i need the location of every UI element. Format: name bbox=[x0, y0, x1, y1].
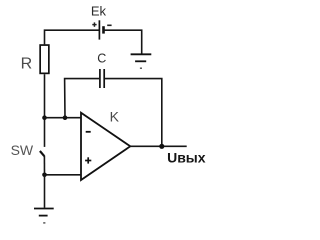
wire junction down to bottom ground bbox=[44, 175, 46, 208]
op-amp K bbox=[81, 113, 130, 180]
node non-inverting junction bbox=[42, 173, 47, 178]
node output junction bbox=[159, 144, 164, 149]
battery minus polarity mark bbox=[107, 24, 111, 26]
ground top-right bbox=[131, 54, 152, 68]
svg-text:C: C bbox=[97, 51, 106, 65]
wire capacitor right to feedback corner down to output node bbox=[105, 79, 162, 147]
wire battery negative to top-right corner down to ground bbox=[104, 30, 142, 54]
wire switch bottom contact to non-inverting junction bbox=[43, 156, 45, 175]
svg-text:Uвых: Uвых bbox=[167, 149, 206, 165]
wire left rail resistor bottom to switch top contact bbox=[44, 74, 46, 147]
op-amp inverting input mark bbox=[86, 131, 91, 133]
svg-text:R: R bbox=[21, 56, 33, 73]
wire non-inverting input bbox=[45, 174, 82, 176]
svg-text:SW: SW bbox=[11, 142, 34, 158]
battery Ek bbox=[99, 20, 103, 39]
capacitor C bbox=[100, 69, 104, 88]
switch SW blade bbox=[40, 151, 45, 156]
wire capacitor left branch bbox=[65, 79, 100, 118]
resistor R bbox=[40, 45, 49, 73]
node capacitor branch junction bbox=[63, 115, 68, 120]
wire top rail left corner to battery positive plate bbox=[45, 30, 100, 44]
svg-text:K: K bbox=[110, 109, 120, 125]
battery plus polarity mark bbox=[92, 22, 96, 26]
wire inverting input bbox=[45, 117, 82, 119]
op-amp non-inverting input mark bbox=[85, 157, 91, 163]
node inverting junction on left rail bbox=[42, 115, 47, 120]
svg-text:Ek: Ek bbox=[91, 4, 107, 19]
ground bottom bbox=[34, 209, 54, 223]
wire output bbox=[130, 145, 186, 147]
